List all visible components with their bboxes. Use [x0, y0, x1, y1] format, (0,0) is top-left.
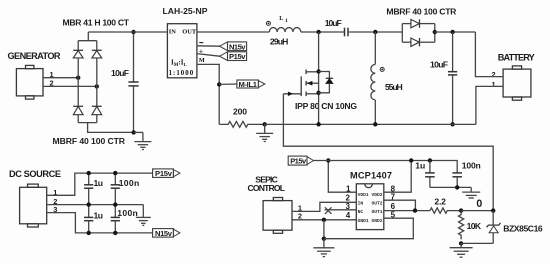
- wire L1 to drain node: [301, 31, 345, 33]
- wire MCP pin8 VDD2 riser to P15v rail: [384, 161, 411, 193]
- node junction output cap top: [450, 30, 454, 34]
- transducer U1 pin label minus: [199, 42, 203, 44]
- ground (clamp, large): [450, 243, 473, 257]
- node junction 10K bottom / zener return: [459, 241, 463, 245]
- wire top rail (bridge to LAH IN): [88, 31, 167, 33]
- diode D5 (output upper): [411, 19, 435, 27]
- svg-text:1:1000: 1:1000: [169, 70, 194, 77]
- node junction pin2/right column: [95, 84, 99, 88]
- svg-text:2: 2: [298, 211, 302, 220]
- flag M-IL1: [237, 80, 265, 89]
- wire gate-drive trace (gate to clamp node): [283, 94, 493, 211]
- svg-text:GENERATOR: GENERATOR: [8, 51, 61, 61]
- capacitor C1 10uF: [128, 32, 138, 132]
- svg-text:1u: 1u: [415, 161, 425, 171]
- wire Q1 drain vertical: [318, 32, 320, 124]
- capacitor C4 1u (+15 rail): [84, 173, 93, 205]
- svg-text:10uF: 10uF: [111, 68, 129, 78]
- diode D7 body diode of Q1: [319, 72, 334, 93]
- inductor L2 55uH winding: [371, 32, 375, 124]
- svg-text:0: 0: [476, 198, 482, 210]
- svg-text:BATTERY: BATTERY: [498, 53, 535, 63]
- wire LAH minus pin to N15v flag: [197, 45, 220, 47]
- node junction body diode bottom: [316, 91, 320, 95]
- wire pin4 node down to driver ground: [323, 220, 325, 239]
- battery B1 body: [503, 66, 531, 100]
- wire LAH M pin down to 200 ohm: [197, 64, 219, 124]
- wire diode join to battery riser: [435, 31, 476, 33]
- wire bypass caps bottoms join: [430, 186, 471, 188]
- node junction bypass cap bottoms: [455, 185, 459, 189]
- wire generator pin2 to right diode column: [43, 85, 97, 87]
- wire MCP pin6 OUT1 to gate resistor: [384, 210, 430, 212]
- node junctions mid rail: [87, 202, 91, 206]
- capacitor C3 10uF (output): [448, 32, 457, 124]
- node junction C1 top on rail: [131, 30, 135, 34]
- sepic control U3 body: [263, 198, 292, 234]
- wire right column upper lead: [96, 41, 98, 51]
- svg-text:VDD1: VDD1: [358, 192, 369, 198]
- svg-text:VDD2: VDD2: [371, 192, 382, 198]
- node junction C1 bottom: [132, 130, 136, 134]
- svg-text:4: 4: [346, 211, 351, 220]
- svg-text:OUT: OUT: [182, 28, 197, 35]
- svg-text:MBRF 40 100 CTR: MBRF 40 100 CTR: [386, 6, 457, 16]
- svg-text:GND2: GND2: [371, 218, 382, 224]
- svg-text:LAH-25-NP: LAH-25-NP: [163, 6, 208, 16]
- inductor L1 phasing dot: [266, 21, 270, 25]
- svg-text:2.2: 2.2: [434, 197, 446, 207]
- svg-text:2: 2: [492, 70, 496, 79]
- svg-text:1u: 1u: [94, 210, 104, 220]
- svg-text:29uH: 29uH: [270, 36, 289, 46]
- flag P15v (driver supply): [288, 156, 313, 166]
- capacitor C7 100n (-15 rail): [111, 205, 120, 233]
- diode D3 (bottom-left, MBRF40100CTR): [73, 106, 83, 114]
- wire C2 to 55uH top: [348, 31, 402, 33]
- no-connect X on pin 3: [325, 207, 332, 214]
- node junction source on bottom rail: [316, 122, 320, 126]
- generator G1 body: [16, 65, 43, 99]
- svg-text:2: 2: [346, 193, 351, 202]
- wire left column lower lead: [77, 115, 79, 123]
- svg-text:P15v: P15v: [290, 157, 307, 166]
- node junction output cap bottom: [450, 122, 454, 126]
- wire bridge top bar: [78, 40, 97, 42]
- svg-text:MBR 41 H 100 CT: MBR 41 H 100 CT: [63, 17, 130, 27]
- wire zener anode to ground node: [461, 242, 493, 244]
- node junction 1u cap on P15v rail: [428, 158, 432, 162]
- wire left column middle: [77, 58, 79, 106]
- svg-text:IN: IN: [169, 28, 176, 35]
- wire to generator ground: [134, 131, 143, 133]
- sepic control U3 label: [248, 175, 286, 194]
- svg-text:L: L: [279, 16, 283, 22]
- diode D4 (bottom-right, MBRF40100CTR): [92, 106, 102, 114]
- wire battery pin 1 to bottom rail: [476, 86, 503, 124]
- wire MCP pin1 VDD1 riser to P15v rail: [328, 161, 356, 193]
- diode D6 (output lower): [411, 38, 435, 46]
- wire generator pin1 to left diode column: [43, 77, 78, 79]
- svg-text:10uF: 10uF: [430, 60, 448, 70]
- flag P15v (dc source output): [153, 169, 180, 178]
- resistor R3 10K (gate pulldown): [459, 211, 464, 240]
- wire left column upper lead: [77, 41, 79, 51]
- capacitor C8 1u (driver bypass): [425, 161, 435, 188]
- svg-text:100n: 100n: [117, 208, 138, 218]
- ground (dc source mid rail): [136, 205, 151, 226]
- node junctions +15 rail: [87, 171, 91, 175]
- svg-text:M: M: [199, 57, 205, 64]
- wire bridge bottom bar: [78, 122, 97, 124]
- driver U2 body: [356, 184, 384, 230]
- wire LAH plus pin to P15v flag: [197, 54, 220, 57]
- node junction 10K top: [459, 208, 463, 212]
- resistor R2 2.2 (gate): [430, 208, 461, 213]
- capacitor C6 1u (-15 rail): [84, 205, 93, 233]
- svg-text:55uH: 55uH: [385, 82, 403, 92]
- svg-text:IPP 80 CN 10NG: IPP 80 CN 10NG: [295, 101, 357, 111]
- node junction drain / top rail: [316, 30, 320, 34]
- capacitor C2 10uF (series coupling): [345, 28, 349, 37]
- wire Q1 gate lead with arrow: [283, 92, 301, 96]
- resistor R1 200: [219, 121, 264, 127]
- wire sepic pin1 to MCP IN (pin2): [292, 202, 356, 211]
- capacitor C5 100n (+15 rail): [111, 173, 120, 205]
- wire 10K node to clamp node: [461, 210, 493, 212]
- node junction pin8 riser on P15v rail: [409, 158, 413, 162]
- svg-text:CONTROL: CONTROL: [248, 183, 286, 193]
- inductor L2 phasing dot: [380, 67, 384, 71]
- wire MCP pin5 GND2 return: [324, 218, 413, 239]
- node junction diode join on rail: [433, 30, 437, 34]
- node junction clamp node (gate trace): [491, 208, 495, 212]
- diode D2 (top-right, MBR41H100CT): [92, 50, 102, 58]
- svg-text:N15v: N15v: [155, 229, 173, 238]
- node junction 200 ohm / ground / source rail: [263, 122, 267, 126]
- node junction sepic pin2 / MCP pin4: [322, 218, 326, 222]
- flag N15v (LAH supply): [220, 42, 247, 51]
- svg-text:MCP1407: MCP1407: [350, 171, 392, 181]
- svg-text:MBRF 40 100 CTR: MBRF 40 100 CTR: [53, 136, 126, 146]
- node junction pin1/left column: [76, 76, 80, 80]
- node junction 55uH on bottom rail: [373, 122, 377, 126]
- svg-text:OUT1: OUT1: [371, 209, 382, 215]
- wire dc pin2 mid rail to ground: [47, 204, 144, 206]
- wire M node to M-IL1 flag: [219, 83, 237, 85]
- diode D8 zener BZX85C16: [487, 211, 501, 244]
- ground (driver, large): [313, 239, 334, 257]
- svg-text:GND1: GND1: [358, 218, 369, 224]
- svg-text:10uF: 10uF: [325, 18, 342, 28]
- node junction pin1 riser on P15v rail: [326, 158, 330, 162]
- wire bridge center-tap drop: [88, 123, 134, 133]
- wire top rail to battery pin 2: [475, 32, 503, 77]
- node junctions -15 rail: [87, 231, 91, 235]
- wire dc pin3 down to -15 rail: [47, 213, 153, 233]
- svg-text:200: 200: [233, 106, 247, 116]
- driver U2 inside pin names: [358, 192, 383, 224]
- wire bottom source rail: [265, 123, 476, 125]
- wire P15v rail to bypass caps: [314, 161, 458, 173]
- dc source V1 body: [20, 184, 47, 227]
- svg-text:P15v: P15v: [155, 169, 173, 178]
- wire right column lower lead: [96, 115, 98, 123]
- ground (at 200 ohm): [256, 124, 273, 141]
- svg-text:IN: IN: [358, 201, 364, 207]
- wire MCP pin3 NC stub: [325, 209, 357, 211]
- svg-text:1u: 1u: [94, 178, 104, 188]
- wire sepic pin2 to MCP GND1 (pin4): [292, 219, 356, 221]
- svg-text:P15v: P15v: [229, 52, 246, 61]
- svg-text:1: 1: [492, 80, 496, 89]
- inductor L1 29uH winding: [269, 28, 301, 32]
- node junction 55uH top: [373, 30, 377, 34]
- wire dc pin1 up to +15 rail: [47, 173, 153, 195]
- wire output diode pair left split: [402, 24, 411, 43]
- ground (generator section): [134, 132, 151, 149]
- svg-text:DC SOURCE: DC SOURCE: [9, 169, 61, 179]
- transistor Q1 MOSFET symbol: [301, 70, 318, 97]
- ground (bypass caps): [462, 187, 480, 198]
- diode D1 (top-left, MBR41H100CT): [73, 50, 83, 58]
- node junction on M wire: [217, 82, 221, 86]
- svg-text:100n: 100n: [462, 161, 481, 171]
- wire MCP pin7 OUT2 riser to output node: [384, 200, 416, 210]
- flag P15v (LAH supply): [220, 52, 247, 61]
- wire LAH OUT to L1: [197, 31, 269, 33]
- svg-text:10K: 10K: [467, 221, 482, 231]
- capacitor C9 100n (driver bypass): [452, 173, 462, 188]
- svg-text:M-IL1: M-IL1: [239, 80, 258, 89]
- node junction OUT1/OUT2: [413, 208, 417, 212]
- svg-text:NC: NC: [358, 209, 364, 215]
- transducer U1 body: [167, 24, 197, 78]
- node junction body diode top: [316, 69, 320, 73]
- svg-text:1: 1: [285, 18, 288, 24]
- svg-text:OUT2: OUT2: [371, 201, 382, 207]
- wire right column middle: [96, 58, 98, 106]
- node junction driver ground: [322, 237, 326, 241]
- wire top tee from rail down to bridge: [87, 32, 89, 41]
- svg-text:N15v: N15v: [229, 42, 246, 51]
- svg-text:100n: 100n: [119, 178, 140, 188]
- flag N15v (dc source output): [153, 229, 180, 238]
- svg-text:BZX85C16: BZX85C16: [503, 223, 543, 233]
- wire output diode pair right join: [434, 24, 436, 43]
